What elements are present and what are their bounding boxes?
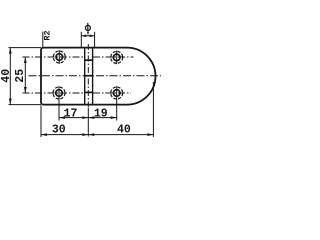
dim 19: right arrow [111,116,117,119]
dim 30/40: dimension line [41,134,153,136]
svg-text:R2: R2 [43,30,53,40]
knuckle divider 1 [84,59,93,61]
hole bottom-left vertical tick / extension to dim [58,86,60,120]
center line bottom hole row right part [93,92,131,94]
dim 40 vertical: bottom arrow [9,99,12,105]
dim 40 vertical: top arrow [9,48,12,54]
hole top-left countersink dashed circle [53,51,65,63]
svg-text:19: 19 [94,107,108,120]
knuckle left line [84,48,86,105]
hole bottom-left countersink dashed circle [53,87,65,99]
dim 6 top: right arrow [90,35,95,38]
dim 6 top: dimension line [81,35,94,37]
dim 40 bottom: right arrow [147,133,153,136]
hinge outline [41,48,155,105]
dim 25 vertical: bottom arrow [24,87,27,93]
hole top-right countersink dashed circle [111,51,123,63]
dim 40 vertical: bottom extension line [9,104,42,106]
svg-text:40: 40 [117,123,131,136]
hole top-left [56,54,63,61]
dim 6 top: leader down arrow [87,32,89,36]
svg-text:25: 25 [14,69,27,83]
knuckle divider 2 [84,75,93,77]
svg-text:30: 30 [52,123,66,136]
hole top-right vertical tick [116,51,118,65]
hole bottom-right countersink dashed circle [111,87,123,99]
dim 6 top: diameter symbol ring [85,25,90,30]
dim 30: left arrow [41,133,47,136]
hole top-right [113,54,120,61]
hole bottom-right vertical tick / extension to dim [116,86,118,120]
dim 30: right arrow [82,133,88,136]
svg-text:40: 40 [0,69,13,83]
dim 17: right arrow [82,116,88,119]
center line middle [29,75,162,77]
knuckle divider 3 [84,91,93,93]
dim 40 bottom: left arrow [88,133,94,136]
dim 17: left arrow [59,116,65,119]
dim 30/40: left extension line [40,106,42,138]
center line bottom hole row left part [23,92,85,94]
dim 25 vertical: dimension line [24,57,26,93]
dim 17/19: dimension line [59,117,117,119]
hinge axis center line [87,44,89,108]
dim 6 top: left arrow [81,35,86,38]
dim 40 vertical: dimension line [9,48,11,105]
hole top-left vertical tick [58,50,60,64]
dim 30/40: right extension line [152,82,154,137]
hinge axis extension to bottom dims [87,108,89,137]
dim 40 vertical: top extension line [9,47,42,49]
dim 25 vertical: top arrow [24,57,27,63]
center line top hole row left part [23,56,85,58]
dim 6 top: diameter symbol stem [87,23,89,31]
dim 6 top: right extension line [94,32,96,47]
dim 19: left arrow [88,116,94,119]
svg-text:17: 17 [64,107,78,120]
hole bottom-right [113,90,120,97]
dim 6 top: left extension line [80,32,82,47]
knuckle right line [92,48,94,105]
R2 leader line [42,32,44,48]
hole bottom-left [56,90,63,97]
center line top hole row right part [93,56,134,58]
